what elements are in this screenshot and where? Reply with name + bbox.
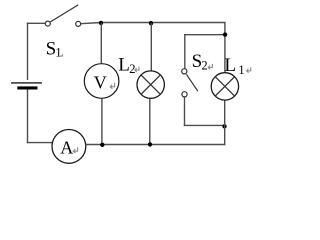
voltmeter V [84, 64, 119, 99]
wire: L2 branch lower vertical [149, 98, 151, 144]
wire: inner loop left vertical down to switch S2 [184, 34, 186, 69]
svg-text:L: L [118, 55, 130, 76]
node: top junction of lamp L2 branch [149, 21, 153, 25]
battery B1 negative short thick plate [17, 86, 37, 89]
svg-text:2: 2 [129, 62, 135, 76]
svg-text:A: A [60, 138, 73, 158]
switch S2 bottom contact [182, 92, 187, 97]
node: bottom junction of voltmeter branch [100, 143, 104, 147]
wire: top-left horizontal from corner to S1 left contact [27, 22, 45, 24]
wire: from battery bottom down to bottom-left corner [27, 90, 29, 144]
carriage-return mark after S2 [208, 64, 212, 69]
svg-text:2: 2 [201, 58, 207, 72]
wire: bottom-left horizontal to ammeter [27, 142, 53, 144]
wire: top horizontal from S1 to top-right corner [81, 23, 226, 24]
label carriage-return mark after A [73, 147, 77, 153]
node: rejoin junction of S2 branch [222, 124, 226, 128]
switch S1 lever [50, 5, 78, 22]
wire: S2 branch lower vertical [184, 97, 186, 126]
switch S2 lever [186, 74, 197, 91]
lamp L1 [211, 73, 238, 100]
wire: inner loop top horizontal (S2 branch) [184, 34, 225, 36]
tiny gray mark after S1 [61, 54, 63, 57]
switch S2 top contact [182, 69, 187, 74]
node: bottom junction of lamp L2 branch [148, 142, 152, 146]
switch S1 right contact [76, 21, 81, 26]
wire: voltmeter branch lower vertical [101, 98, 103, 145]
wire: right vertical from top corner down to lamp L1 [224, 23, 226, 73]
battery B1 positive long plate [11, 82, 42, 84]
node: top junction of voltmeter branch [99, 21, 103, 25]
carriage-return mark after L2 [135, 67, 139, 72]
switch S1 left contact [45, 21, 50, 26]
label carriage-return mark after V [110, 83, 114, 89]
lamp L2 [137, 71, 164, 98]
wire: left vertical from top corner down to battery top plate [27, 23, 29, 80]
wire: inner loop bottom horizontal back to right vertical [184, 124, 223, 126]
svg-text:L: L [224, 55, 236, 76]
svg-text:1: 1 [238, 63, 244, 77]
svg-text:V: V [94, 73, 107, 93]
carriage-return mark after L1 [247, 67, 251, 72]
svg-text:1: 1 [55, 46, 61, 60]
wire: voltmeter branch upper vertical [100, 23, 102, 64]
ammeter A [52, 130, 86, 164]
node: junction of S2 branch on right vertical [223, 32, 227, 36]
wire: bottom horizontal from ammeter to bottom-right corner [86, 144, 226, 146]
wire: L2 branch upper vertical [150, 23, 152, 71]
wire: right vertical from L1 down to bottom-right corner [224, 100, 226, 145]
